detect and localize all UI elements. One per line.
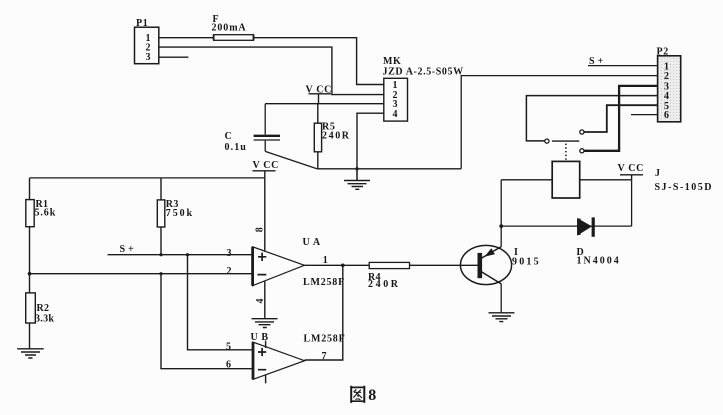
op-amp U B LM258F — [226, 332, 346, 383]
wire ground rail to P2 pin2 — [461, 76, 657, 169]
resistor R2 3.3k — [26, 274, 55, 349]
svg-text:P2: P2 — [657, 46, 669, 57]
wire pin2 net down to UB pin6 — [161, 274, 253, 369]
wire capacitor to ground rail (diagonal) — [265, 151, 317, 168]
diode D 1N4004 — [577, 217, 621, 266]
relay J coil SJ-S-105D — [501, 161, 713, 198]
caption 图 8 — [351, 386, 376, 404]
relay common pivot contact — [545, 139, 549, 143]
junction UA output / UB riser — [341, 264, 345, 268]
svg-text:LM258F: LM258F — [304, 334, 346, 345]
junction collector/diode — [499, 224, 503, 228]
svg-text:3: 3 — [146, 52, 151, 63]
power VCC (relay) — [618, 163, 644, 180]
wire P1 pin2 to MK pin2 — [159, 47, 384, 95]
ground (below MK) — [344, 167, 370, 189]
svg-text:1N4004: 1N4004 — [577, 256, 621, 267]
svg-text:4: 4 — [393, 109, 398, 120]
wire lower contact to P2 pin3 — [584, 86, 657, 151]
capacitor C 0.1u — [225, 104, 281, 153]
wire P2 pin6 stub — [631, 114, 658, 116]
wire divider to UA pin2 — [30, 273, 253, 275]
svg-text:1: 1 — [323, 255, 328, 266]
wire P1 pin3 stub — [159, 56, 189, 58]
wire UA pin4 to ground — [264, 281, 266, 319]
svg-text:240R: 240R — [322, 131, 351, 142]
junction R3/S+ — [159, 253, 162, 256]
ground (UA pin4) — [252, 319, 278, 328]
node S+ — [120, 244, 137, 255]
wire VCC rail left — [30, 177, 265, 179]
wire MK pin3 to capacitor top — [265, 103, 384, 105]
svg-text:750k: 750k — [166, 208, 194, 219]
wire UA output to R4 — [304, 264, 369, 266]
wire transistor emitter to ground — [500, 284, 502, 313]
wire S+ down to UB pin5 — [188, 255, 253, 350]
power VCC (top, feeds R5) — [306, 84, 332, 103]
relay armature — [552, 140, 579, 142]
wire S+ to P2 pin1 — [588, 65, 658, 67]
svg-text:P1: P1 — [136, 18, 148, 29]
svg-text:U A: U A — [303, 237, 321, 248]
junction S+/pin5 riser — [186, 253, 189, 256]
connector P1 — [135, 18, 159, 64]
relay actuator dotted link — [565, 144, 567, 161]
svg-text:C: C — [225, 131, 233, 142]
wire MK pin4 to ground rail — [357, 113, 384, 169]
wire upper contact to P2 pin5 — [584, 105, 657, 132]
svg-text:JZD A-2.5-S05W: JZD A-2.5-S05W — [383, 67, 464, 78]
relay lower contact — [580, 149, 584, 153]
resistor R1 5.6k — [26, 178, 56, 274]
svg-text:8: 8 — [255, 227, 266, 232]
svg-text:2: 2 — [227, 266, 232, 277]
resistor R4 240R — [368, 262, 410, 289]
wire fuse to MK pin1 — [254, 38, 384, 85]
svg-text:J: J — [655, 168, 661, 179]
svg-text:200mA: 200mA — [212, 23, 247, 34]
svg-text:5: 5 — [226, 342, 231, 353]
buzzer MK JZD A-2.5-S05W — [383, 56, 464, 121]
svg-text:R2: R2 — [37, 303, 50, 314]
wire UA output down to UB pin7 — [305, 265, 343, 360]
wire VCC to UA pin8 — [264, 178, 266, 252]
svg-text:LM258F: LM258F — [303, 277, 345, 288]
wire P1 pin1 to fuse — [159, 37, 214, 39]
svg-text:8: 8 — [368, 387, 376, 404]
svg-text:3: 3 — [227, 248, 232, 259]
svg-text:0.1u: 0.1u — [225, 142, 247, 153]
wire diode row — [501, 225, 631, 227]
wire ground rail — [317, 168, 461, 170]
ground (transistor emitter) — [489, 313, 515, 322]
wire P2 pin4 to relay common — [526, 96, 657, 141]
connector P2 — [657, 46, 681, 121]
wire S+ to UA pin3 — [108, 254, 253, 256]
svg-text:9015: 9015 — [512, 256, 541, 267]
resistor R3 750k — [157, 178, 194, 255]
svg-text:6: 6 — [664, 110, 669, 121]
wire VCC node down to diode cathode — [631, 180, 633, 226]
svg-text:V CC: V CC — [618, 163, 644, 174]
power VCC (left, feeds divider rail) — [253, 160, 279, 178]
wire R4 to transistor base — [410, 264, 478, 266]
svg-text:5.6k: 5.6k — [35, 207, 57, 218]
svg-text:SJ-S-105D: SJ-S-105D — [655, 182, 714, 193]
node S+ (right) — [589, 56, 606, 67]
junction R1/R2 — [28, 272, 32, 276]
fuse F 200mA — [212, 14, 254, 41]
wire transistor collector up — [500, 180, 502, 247]
svg-text:240R: 240R — [368, 279, 401, 290]
relay upper contact — [580, 130, 584, 134]
transistor Q 9015 — [460, 245, 540, 284]
svg-text:3.3k: 3.3k — [35, 313, 54, 324]
op-amp U A LM258F — [227, 227, 346, 303]
svg-text:S+: S+ — [120, 244, 137, 255]
ground (below R2) — [17, 349, 44, 358]
svg-text:V CC: V CC — [253, 160, 279, 171]
svg-text:MK: MK — [383, 56, 401, 67]
svg-text:6: 6 — [226, 360, 231, 371]
resistor R5 240R — [314, 104, 350, 169]
junction pin2/pin6 riser — [159, 272, 162, 275]
